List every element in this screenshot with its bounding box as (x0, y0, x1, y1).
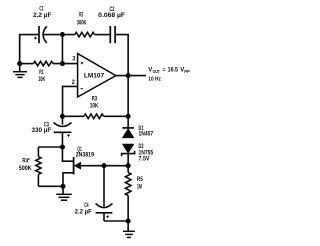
svg-text:C2: C2 (110, 7, 115, 13)
svg-text:2.2 µF: 2.2 µF (75, 210, 93, 216)
svg-text:LM107: LM107 (84, 74, 105, 80)
svg-text:R1: R1 (39, 70, 44, 76)
svg-text:300K: 300K (77, 21, 87, 27)
svg-text:1N457: 1N457 (139, 132, 154, 138)
svg-text:OUT: OUT (153, 69, 161, 74)
svg-text:10K: 10K (90, 103, 99, 109)
svg-text:R4*: R4* (22, 159, 30, 165)
svg-text:3: 3 (72, 56, 75, 63)
svg-text:2N3819: 2N3819 (76, 153, 95, 159)
svg-text:1M: 1M (137, 185, 142, 191)
svg-text:C1: C1 (39, 7, 43, 13)
svg-text:R2: R2 (79, 13, 84, 19)
svg-text:1N755: 1N755 (139, 150, 154, 156)
svg-text:R5: R5 (137, 177, 143, 183)
svg-text:0.068 µF: 0.068 µF (98, 13, 125, 19)
svg-text:7.5V: 7.5V (139, 157, 150, 163)
svg-text:2.2 µF: 2.2 µF (33, 13, 52, 19)
svg-text:2: 2 (72, 79, 75, 86)
svg-text:330 µF: 330 µF (32, 128, 52, 134)
svg-text:D2: D2 (139, 144, 144, 150)
svg-text:10 Hz: 10 Hz (148, 77, 161, 83)
svg-text:16.5: 16.5 (168, 67, 179, 74)
svg-text:PP: PP (184, 69, 190, 74)
svg-text:500K: 500K (19, 166, 32, 172)
svg-text:R3: R3 (92, 97, 98, 103)
svg-text:=: = (162, 68, 165, 74)
svg-text:10K: 10K (38, 77, 45, 83)
svg-text:C4: C4 (84, 203, 89, 209)
